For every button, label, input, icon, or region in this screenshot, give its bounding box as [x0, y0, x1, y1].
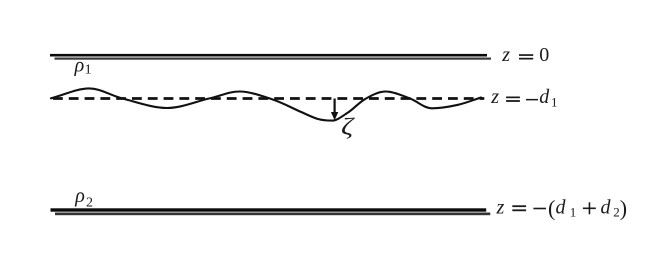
svg-text:ζ: ζ: [341, 112, 355, 140]
svg-text:z: z: [490, 86, 499, 108]
svg-text:2: 2: [86, 196, 93, 211]
svg-text:1: 1: [570, 205, 577, 220]
svg-text:ρ: ρ: [74, 185, 85, 207]
svg-text:2: 2: [613, 205, 620, 220]
svg-text:d: d: [601, 197, 612, 219]
svg-text:d: d: [539, 86, 550, 108]
svg-text:0: 0: [539, 44, 549, 66]
svg-text:d: d: [556, 197, 567, 219]
svg-text:(: (: [548, 196, 555, 221]
svg-text:ρ: ρ: [74, 54, 85, 76]
svg-text:): ): [620, 196, 627, 221]
svg-text:z: z: [501, 44, 510, 66]
svg-text:1: 1: [551, 95, 558, 110]
svg-text:z: z: [496, 197, 505, 219]
svg-text:1: 1: [85, 63, 92, 78]
